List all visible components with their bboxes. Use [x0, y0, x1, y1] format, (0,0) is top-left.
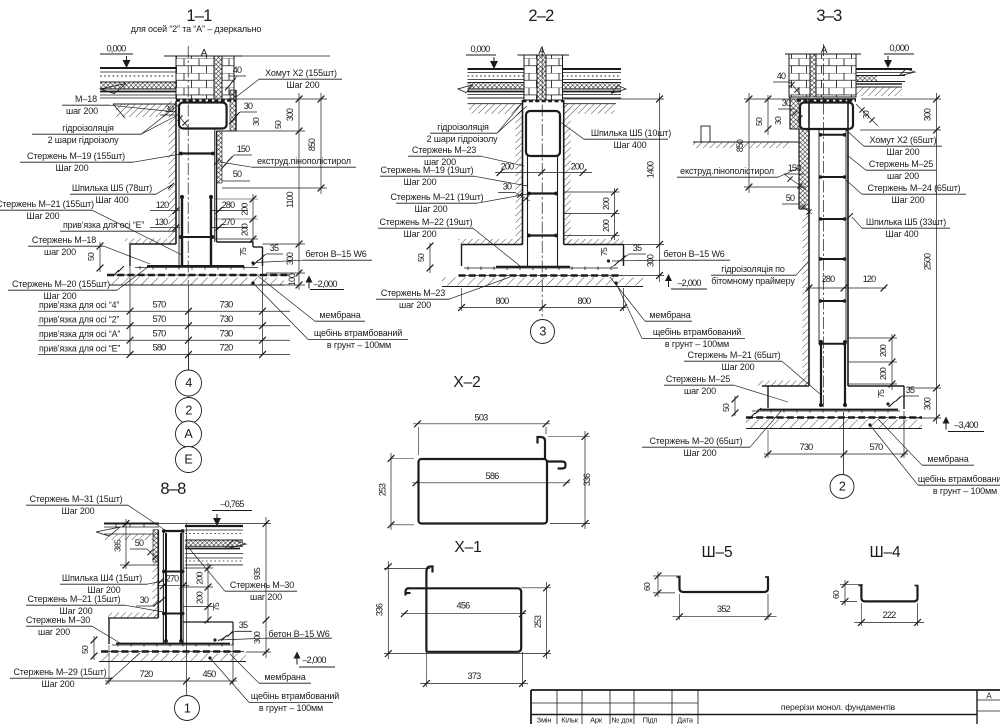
svg-text:гідроізоляція: гідроізоляція: [62, 123, 114, 133]
svg-text:Ш–4: Ш–4: [870, 544, 902, 561]
svg-text:Стержень М–20 (155шт): Стержень М–20 (155шт): [12, 279, 110, 289]
svg-text:2: 2: [185, 404, 192, 418]
svg-text:Ш–5: Ш–5: [702, 544, 733, 561]
svg-text:Стержень М–22 (19шт): Стержень М–22 (19шт): [379, 217, 472, 227]
svg-text:Шпилька Ш5 (78шт): Шпилька Ш5 (78шт): [72, 183, 152, 193]
svg-text:35: 35: [906, 385, 915, 395]
svg-text:Стержень М–21 (19шт): Стержень М–21 (19шт): [390, 192, 483, 202]
svg-text:222: 222: [883, 610, 897, 620]
svg-text:570: 570: [153, 299, 167, 309]
svg-text:Стержень М–31 (15шт): Стержень М–31 (15шт): [29, 494, 122, 504]
svg-text:Змін: Змін: [537, 716, 552, 724]
svg-text:120: 120: [156, 200, 169, 210]
svg-text:75: 75: [238, 247, 248, 256]
svg-text:300: 300: [923, 397, 933, 410]
svg-text:50: 50: [786, 193, 795, 203]
svg-text:720: 720: [220, 343, 234, 353]
svg-text:4: 4: [185, 376, 192, 390]
svg-text:150: 150: [788, 163, 801, 173]
svg-text:мембрана: мембрана: [649, 310, 690, 320]
svg-text:Хомут Х2 (155шт): Хомут Х2 (155шт): [265, 68, 337, 78]
svg-text:35: 35: [633, 243, 642, 253]
svg-text:385: 385: [113, 539, 123, 552]
svg-text:Шаг 200: Шаг 200: [61, 506, 94, 516]
svg-text:Стержень М–19 (155шт): Стержень М–19 (155шт): [27, 151, 125, 161]
svg-text:Стержень М–25: Стержень М–25: [666, 374, 730, 384]
svg-text:730: 730: [220, 314, 234, 324]
svg-text:гідроізоляція: гідроізоляція: [437, 122, 489, 132]
svg-text:200: 200: [195, 591, 205, 604]
svg-text:Шаг 400: Шаг 400: [885, 229, 918, 239]
svg-text:2500: 2500: [923, 253, 933, 270]
svg-text:щебінь втрамбований: щебінь втрамбований: [918, 474, 1000, 484]
svg-text:шаг 200: шаг 200: [399, 300, 431, 310]
svg-text:50: 50: [135, 538, 144, 548]
svg-text:прив’язка для осі “4”: прив’язка для осі “4”: [39, 300, 119, 310]
svg-text:гідроізоляція по: гідроізоляція по: [721, 264, 785, 274]
svg-text:850: 850: [307, 138, 317, 151]
svg-text:Стержень М–18: Стержень М–18: [32, 235, 96, 245]
svg-text:Стержень М–24 (65шт): Стержень М–24 (65шт): [867, 183, 960, 193]
svg-text:для осей “2” та “А” – дзеркаль: для осей “2” та “А” – дзеркально: [131, 24, 262, 34]
svg-text:Хомут Х2 (65шт): Хомут Х2 (65шт): [870, 135, 937, 145]
svg-text:336: 336: [375, 603, 385, 616]
svg-text:200: 200: [878, 367, 888, 380]
svg-text:730: 730: [220, 328, 234, 338]
svg-text:280: 280: [822, 274, 835, 284]
svg-text:570: 570: [153, 328, 167, 338]
svg-text:Стержень М–30: Стержень М–30: [26, 615, 90, 625]
svg-text:100: 100: [287, 273, 297, 286]
svg-text:200: 200: [240, 203, 250, 216]
svg-text:850: 850: [735, 139, 745, 152]
svg-text:253: 253: [378, 483, 388, 496]
svg-text:Шаг 200: Шаг 200: [26, 211, 59, 221]
svg-text:1: 1: [184, 701, 191, 715]
svg-text:мембрана: мембрана: [927, 454, 968, 464]
svg-text:Стержень М–29 (15шт): Стержень М–29 (15шт): [13, 667, 106, 677]
svg-text:прив’язка для осі “2”: прив’язка для осі “2”: [39, 315, 119, 325]
svg-text:А: А: [184, 427, 193, 441]
svg-text:мембрана: мембрана: [319, 310, 360, 320]
svg-text:40: 40: [777, 71, 786, 81]
svg-text:50: 50: [754, 117, 764, 126]
svg-text:Шаг 200: Шаг 200: [414, 204, 447, 214]
svg-text:336: 336: [582, 473, 592, 486]
svg-text:2–2: 2–2: [528, 7, 554, 25]
svg-text:А: А: [821, 45, 828, 56]
svg-text:в грунт – 100мм: в грунт – 100мм: [933, 486, 997, 496]
svg-text:50: 50: [80, 645, 90, 654]
svg-text:75: 75: [211, 602, 221, 611]
svg-text:Шаг 200: Шаг 200: [403, 177, 436, 187]
svg-text:шаг 200: шаг 200: [250, 592, 282, 602]
svg-text:200: 200: [195, 572, 205, 585]
svg-text:200: 200: [601, 197, 611, 210]
svg-text:30: 30: [251, 117, 261, 126]
svg-text:Дата: Дата: [677, 716, 694, 724]
svg-text:шаг 200: шаг 200: [38, 627, 70, 637]
svg-text:3–3: 3–3: [816, 7, 842, 25]
svg-text:456: 456: [457, 601, 471, 611]
svg-text:–2,000: –2,000: [302, 655, 326, 665]
svg-text:Стержень М–21 (65шт): Стержень М–21 (65шт): [687, 350, 780, 360]
svg-text:шаг 200: шаг 200: [66, 106, 98, 116]
svg-text:–2,000: –2,000: [677, 278, 701, 288]
svg-text:Арк: Арк: [590, 716, 603, 724]
svg-text:50: 50: [273, 120, 283, 129]
svg-text:50: 50: [233, 169, 242, 179]
svg-text:35: 35: [239, 620, 248, 630]
svg-text:200: 200: [601, 219, 611, 232]
svg-text:Стержень М–25: Стержень М–25: [869, 159, 933, 169]
svg-text:450: 450: [203, 669, 217, 679]
svg-text:3: 3: [539, 325, 546, 339]
svg-text:270: 270: [222, 217, 235, 227]
svg-text:150: 150: [237, 144, 250, 154]
svg-text:730: 730: [800, 442, 814, 452]
svg-text:0,000: 0,000: [471, 44, 491, 54]
svg-text:373: 373: [468, 671, 482, 681]
svg-text:8–8: 8–8: [160, 480, 186, 498]
svg-text:Стержень М–23: Стержень М–23: [381, 288, 445, 298]
svg-text:–0,765: –0,765: [220, 499, 244, 509]
svg-text:щебінь втрамбований: щебінь втрамбований: [314, 328, 402, 338]
svg-text:Шаг 200: Шаг 200: [41, 679, 74, 689]
svg-text:Стержень М–23: Стержень М–23: [412, 145, 476, 155]
svg-text:935: 935: [252, 567, 262, 580]
svg-text:А: А: [201, 48, 208, 59]
svg-text:30: 30: [140, 595, 149, 605]
svg-text:Шаг 400: Шаг 400: [95, 195, 128, 205]
svg-text:в грунт – 100мм: в грунт – 100мм: [327, 340, 391, 350]
svg-text:200: 200: [240, 223, 250, 236]
svg-text:0,000: 0,000: [890, 43, 910, 53]
svg-text:50: 50: [721, 403, 731, 412]
svg-text:–2,000: –2,000: [313, 279, 337, 289]
svg-text:прив’язка для осі “Е”: прив’язка для осі “Е”: [63, 220, 144, 230]
svg-text:800: 800: [496, 296, 510, 306]
svg-text:Стержень М–30: Стержень М–30: [230, 580, 294, 590]
svg-text:503: 503: [475, 413, 489, 423]
svg-text:Шаг 200: Шаг 200: [55, 163, 88, 173]
svg-text:1400: 1400: [646, 161, 656, 178]
svg-text:екструд.пінополістирол: екструд.пінополістирол: [680, 166, 774, 176]
svg-text:бетон В–15 W6: бетон В–15 W6: [663, 249, 724, 259]
svg-text:60: 60: [831, 590, 841, 599]
svg-text:35: 35: [270, 243, 279, 253]
svg-text:200: 200: [571, 162, 584, 172]
svg-text:720: 720: [140, 669, 154, 679]
svg-text:300: 300: [285, 252, 295, 265]
svg-text:280: 280: [222, 200, 235, 210]
svg-text:шаг 200: шаг 200: [684, 386, 716, 396]
svg-text:в грунт – 100мм: в грунт – 100мм: [665, 339, 729, 349]
svg-text:60: 60: [642, 582, 652, 591]
svg-text:580: 580: [153, 343, 167, 353]
svg-text:Шпилька Ш5 (10шт): Шпилька Ш5 (10шт): [591, 128, 671, 138]
svg-text:300: 300: [285, 108, 295, 121]
svg-text:Шаг 200: Шаг 200: [403, 229, 436, 239]
svg-text:перерізи монол. фундаментів: перерізи монол. фундаментів: [781, 702, 896, 712]
svg-text:570: 570: [153, 314, 167, 324]
svg-text:бітомному праймеру: бітомному праймеру: [711, 276, 795, 286]
svg-text:75: 75: [599, 247, 609, 256]
svg-text:120: 120: [863, 274, 876, 284]
svg-text:586: 586: [486, 471, 500, 481]
svg-text:40: 40: [233, 65, 242, 75]
svg-text:2 шари гідроізолу: 2 шари гідроізолу: [427, 134, 498, 144]
svg-text:Стержень М–19 (19шт): Стержень М–19 (19шт): [380, 165, 473, 175]
svg-text:А: А: [986, 692, 992, 701]
svg-text:Шпилька Ш5 (33шт): Шпилька Ш5 (33шт): [866, 217, 946, 227]
svg-text:50: 50: [416, 253, 426, 262]
svg-text:Підп: Підп: [643, 716, 658, 724]
svg-text:щебінь втрамбований: щебінь втрамбований: [251, 691, 339, 701]
svg-text:бетон В–15 W6: бетон В–15 W6: [305, 249, 366, 259]
svg-text:300: 300: [923, 108, 933, 121]
svg-text:50: 50: [86, 252, 96, 261]
svg-text:2: 2: [839, 480, 846, 494]
svg-text:Х–1: Х–1: [454, 539, 481, 556]
svg-text:бетон В–15 W6: бетон В–15 W6: [268, 629, 329, 639]
svg-text:Стержень М–21 (15шт): Стержень М–21 (15шт): [27, 594, 120, 604]
svg-text:№ док: № док: [612, 716, 634, 724]
svg-text:шаг 200: шаг 200: [887, 171, 919, 181]
svg-text:Шаг 200: Шаг 200: [286, 80, 319, 90]
svg-text:прив’язка для осі “Е”: прив’язка для осі “Е”: [39, 343, 120, 353]
svg-text:200: 200: [878, 344, 888, 357]
svg-text:300: 300: [252, 631, 262, 644]
svg-text:щебінь втрамбований: щебінь втрамбований: [653, 327, 741, 337]
svg-text:570: 570: [870, 442, 884, 452]
svg-text:Шаг 200: Шаг 200: [683, 448, 716, 458]
svg-text:253: 253: [533, 615, 543, 628]
svg-text:Кільк: Кільк: [561, 716, 579, 724]
svg-text:270: 270: [166, 574, 179, 584]
svg-text:Шаг 200: Шаг 200: [891, 195, 924, 205]
svg-text:Шаг 400: Шаг 400: [613, 140, 646, 150]
svg-text:30: 30: [773, 116, 783, 125]
svg-text:мембрана: мембрана: [264, 672, 305, 682]
svg-text:прив’язка для осі “А”: прив’язка для осі “А”: [39, 329, 120, 339]
svg-text:шаг 200: шаг 200: [44, 247, 76, 257]
svg-text:Е: Е: [184, 453, 192, 467]
svg-text:1–1: 1–1: [186, 7, 212, 25]
svg-text:екструд.пінополістирол: екструд.пінополістирол: [257, 156, 351, 166]
svg-text:М–18: М–18: [75, 94, 97, 104]
svg-text:–3,400: –3,400: [954, 420, 978, 430]
svg-text:2 шари гідроізолу: 2 шари гідроізолу: [48, 135, 119, 145]
svg-text:Шаг 200: Шаг 200: [886, 147, 919, 157]
svg-text:800: 800: [578, 296, 592, 306]
svg-text:в грунт – 100мм: в грунт – 100мм: [259, 703, 323, 713]
svg-text:75: 75: [876, 389, 886, 398]
svg-text:Стержень М–20 (65шт): Стержень М–20 (65шт): [649, 436, 742, 446]
svg-text:Стержень М–21 (155шт): Стержень М–21 (155шт): [0, 199, 94, 209]
svg-text:Шпилька Ш4 (15шт): Шпилька Ш4 (15шт): [62, 573, 142, 583]
svg-text:130: 130: [155, 217, 168, 227]
svg-text:30: 30: [244, 101, 253, 111]
svg-text:730: 730: [220, 299, 234, 309]
svg-text:Х–2: Х–2: [453, 374, 480, 391]
svg-text:352: 352: [717, 604, 731, 614]
svg-text:0,000: 0,000: [107, 44, 127, 54]
svg-text:30: 30: [782, 98, 791, 108]
svg-text:1100: 1100: [285, 191, 295, 208]
svg-text:Шаг 200: Шаг 200: [721, 362, 754, 372]
